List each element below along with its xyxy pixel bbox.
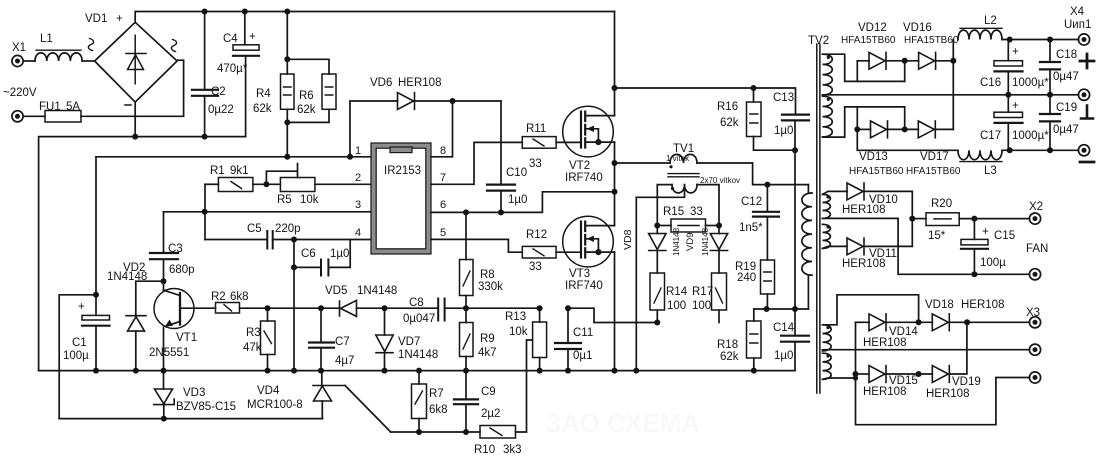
svg-text:+: + <box>982 226 989 238</box>
svg-text:VD6: VD6 <box>370 77 392 89</box>
svg-text:100: 100 <box>667 300 686 312</box>
svg-text:Uип1: Uип1 <box>1064 19 1091 31</box>
svg-text:+: + <box>1012 100 1019 112</box>
svg-text:VD5: VD5 <box>325 285 347 297</box>
svg-text:R17: R17 <box>692 286 713 298</box>
svg-text:C1: C1 <box>72 337 87 349</box>
svg-text:+: + <box>116 13 123 25</box>
junction dot VD6 node <box>450 98 456 104</box>
svg-text:+: + <box>1012 46 1019 58</box>
wire lower rail VD4 to R10 <box>391 431 480 433</box>
wire fan center tap to return rail <box>823 218 1030 274</box>
svg-text:R10: R10 <box>474 444 495 456</box>
junction dot R14 bottom rail <box>654 320 660 326</box>
capacitor C5 <box>205 239 267 241</box>
svg-text:680p: 680p <box>169 264 195 276</box>
svg-text:6: 6 <box>440 199 446 211</box>
plus output symbol <box>1080 54 1094 68</box>
svg-text:X3: X3 <box>1026 307 1040 319</box>
svg-text:VT1: VT1 <box>176 332 197 344</box>
junction dots VD13 VD17 row <box>854 126 860 132</box>
wire riser to VD13 VD17 midpoint <box>904 107 906 129</box>
svg-text:VT3: VT3 <box>569 268 590 280</box>
svg-text:~220V: ~220V <box>3 87 37 99</box>
svg-text:C10: C10 <box>506 167 527 179</box>
svg-text:0µ22: 0µ22 <box>208 104 234 116</box>
connector X3 pin 1 <box>1029 317 1040 328</box>
diode VD5 <box>339 301 341 316</box>
svg-text:33: 33 <box>529 158 542 170</box>
svg-text:R14: R14 <box>666 286 688 298</box>
svg-text:HFA15TB60: HFA15TB60 <box>841 35 896 46</box>
resistor R2 <box>216 303 240 314</box>
wire VD17 cathode riser to plus node <box>952 40 954 130</box>
transistor VT3 <box>563 216 615 267</box>
svg-text:R20: R20 <box>931 198 952 210</box>
junction dots mid rail <box>1005 92 1011 98</box>
svg-text:1N4148: 1N4148 <box>107 271 147 283</box>
svg-text:C12: C12 <box>741 196 762 208</box>
junction dots X3 rectifier <box>916 319 922 325</box>
svg-text:C15: C15 <box>994 230 1015 242</box>
wire secondary A top to VD12 anode net <box>823 54 905 81</box>
junction dots R15 <box>654 223 660 229</box>
resistor R18 <box>753 309 755 321</box>
wire pin7 to R11 <box>431 142 522 184</box>
wire pin 1 row <box>96 156 371 158</box>
svg-text:X4: X4 <box>1070 6 1085 18</box>
svg-text:R3: R3 <box>246 327 261 339</box>
junction dots fan rectifier <box>909 216 915 222</box>
svg-text:2x70 vitkov: 2x70 vitkov <box>700 176 740 185</box>
resistor R6 <box>287 59 329 74</box>
wire R1 left to pin3 node <box>204 184 206 239</box>
diode VD14 <box>856 321 870 323</box>
svg-text:1µ0: 1µ0 <box>774 125 793 137</box>
transformer TV2 fan winding C <box>823 194 831 218</box>
capacitor C14 <box>794 309 796 335</box>
svg-text:HER108: HER108 <box>863 386 906 398</box>
svg-text:R15: R15 <box>663 206 684 218</box>
capacitor C1 <box>82 315 110 320</box>
pin numbers left <box>355 145 446 239</box>
junction dot C13 bottom <box>792 147 798 153</box>
resistor R16 <box>753 88 755 102</box>
svg-text:1N4148: 1N4148 <box>398 349 438 361</box>
junction dots negative rail <box>132 134 138 140</box>
svg-text:100µ: 100µ <box>63 350 89 362</box>
svg-text:1 vitok: 1 vitok <box>666 154 690 163</box>
wire TV1 center tap to ground <box>636 185 684 371</box>
diode VD15 <box>856 373 870 375</box>
junction dots pin1 row <box>284 154 290 160</box>
svg-text:4k7: 4k7 <box>478 347 497 359</box>
svg-text:R9: R9 <box>480 333 495 345</box>
svg-text:FAN: FAN <box>1026 243 1048 255</box>
svg-text:IRF740: IRF740 <box>565 280 603 292</box>
junction dots pin6 row <box>463 209 469 215</box>
svg-text:HER108: HER108 <box>842 258 885 270</box>
connector X4 pin 3 <box>1078 145 1089 156</box>
svg-text:FU1: FU1 <box>39 101 61 113</box>
svg-text:62k: 62k <box>720 351 739 363</box>
diode VD2 <box>136 281 164 316</box>
wire pin5 to R12 <box>431 239 522 252</box>
svg-text:62k: 62k <box>297 104 316 116</box>
diode VD19 <box>932 366 949 383</box>
svg-text:R2: R2 <box>211 291 226 303</box>
wire W2 bottom stub <box>823 378 856 379</box>
svg-text:R12: R12 <box>526 229 547 241</box>
capacitor C18 <box>1049 40 1051 62</box>
diode VD18 <box>932 314 949 331</box>
wire C6 C5 node down to ground <box>293 267 295 370</box>
svg-text:C16: C16 <box>980 77 1001 89</box>
svg-text:2µ2: 2µ2 <box>481 408 500 420</box>
connector X4 pin 2 <box>1078 89 1089 100</box>
transformer TV2 secondary B <box>823 96 833 137</box>
junction dots half bridge column <box>612 85 618 91</box>
junction dot pin4 row <box>291 237 297 243</box>
svg-text:BZV85-C15: BZV85-C15 <box>176 401 236 413</box>
wire R4 R6 bottoms join to pin1 row <box>287 109 329 157</box>
wire VT3 source to ground rail <box>614 252 616 371</box>
capacitor C9 <box>465 371 467 399</box>
diode VD8 <box>656 226 658 234</box>
svg-text:C17: C17 <box>980 130 1001 142</box>
svg-text:X2: X2 <box>1029 201 1043 213</box>
svg-text:1N4148: 1N4148 <box>357 285 397 297</box>
svg-text:1000µ*: 1000µ* <box>1012 77 1049 89</box>
junction dots lower rail <box>416 429 422 435</box>
svg-text:33: 33 <box>690 206 703 218</box>
resistor R14 <box>650 273 665 310</box>
wire winding C top to VD10 <box>823 191 848 194</box>
connector X4 pin 1 <box>1078 34 1089 45</box>
transformer TV2 fan winding D <box>823 224 831 248</box>
wire VT2 drain to top bus <box>614 12 616 116</box>
bridge rectifier VD1 <box>95 22 178 102</box>
capacitor C7 <box>320 308 322 342</box>
junction dot R16 top <box>751 85 757 91</box>
svg-text:C14: C14 <box>773 322 795 334</box>
svg-text:VD17: VD17 <box>920 151 949 163</box>
junction dot VT1 collector node <box>161 278 167 284</box>
diode VD12 <box>857 60 869 62</box>
svg-text:VD4: VD4 <box>257 385 280 397</box>
wire R18 node row <box>754 308 809 310</box>
svg-text:HER108: HER108 <box>961 299 1004 311</box>
capacitor C8 <box>438 299 444 321</box>
zener VD3 <box>163 371 165 389</box>
svg-text:+: + <box>249 31 256 43</box>
svg-text:R4: R4 <box>256 88 271 100</box>
svg-text:C2: C2 <box>211 86 226 98</box>
svg-text:1n5*: 1n5* <box>739 222 763 234</box>
wire TV1 secondary left to R15 <box>657 185 672 226</box>
IC U1 IR2153 body <box>371 143 431 254</box>
svg-text:3k3: 3k3 <box>503 444 522 456</box>
diode VD16 <box>919 52 936 69</box>
svg-text:10k: 10k <box>509 326 528 338</box>
svg-text:220p: 220p <box>275 223 301 235</box>
junction dots VD12 VD16 row <box>902 58 908 64</box>
svg-text:1: 1 <box>355 145 361 157</box>
wire pin 3 row <box>164 211 372 213</box>
svg-text:1µ0: 1µ0 <box>508 194 527 206</box>
svg-text:IRF740: IRF740 <box>565 172 603 184</box>
wire L1 to bridge <box>82 60 95 62</box>
wire negative rail to left vertical <box>39 137 246 371</box>
svg-text:4: 4 <box>355 227 361 239</box>
svg-text:1µ0: 1µ0 <box>330 248 349 260</box>
capacitor C3 <box>150 253 178 259</box>
wire left vcc vertical <box>95 157 97 316</box>
capacitor C16 <box>1007 40 1009 61</box>
diode VD17 <box>918 121 935 138</box>
wire feedback row step <box>568 308 657 322</box>
transformer TV2 primary winding <box>807 185 809 193</box>
svg-text:C19: C19 <box>1056 102 1077 114</box>
svg-text:62k: 62k <box>253 103 272 115</box>
svg-text:C3: C3 <box>168 243 183 255</box>
svg-text:C6: C6 <box>301 248 316 260</box>
transformer TV2 secondary A <box>823 54 833 95</box>
trimmer R13 <box>539 308 541 322</box>
wire center tap mid rail <box>823 94 1079 96</box>
svg-text:IR2153: IR2153 <box>384 165 421 177</box>
svg-text:5A: 5A <box>66 101 80 113</box>
diode VD11 <box>847 238 864 255</box>
svg-text:7: 7 <box>440 172 446 184</box>
junction dots plus rail <box>1007 37 1013 43</box>
junction dot VD3 rail <box>161 416 167 422</box>
junction dot pin3 row <box>202 209 208 215</box>
resistor R15 <box>657 225 671 227</box>
connector X2 pin 1 <box>1029 213 1040 224</box>
svg-text:C7: C7 <box>335 336 350 348</box>
connector X2 pin 2 <box>1029 269 1040 280</box>
svg-text:240: 240 <box>737 272 756 284</box>
svg-text:R8: R8 <box>480 269 495 281</box>
transistor VT2 <box>563 106 615 157</box>
svg-text:TV2: TV2 <box>808 35 829 47</box>
svg-text:R7: R7 <box>429 388 444 400</box>
svg-text:MCR100-8: MCR100-8 <box>247 399 303 411</box>
transformer TV2 winding W1 <box>823 325 832 351</box>
transformer TV2 core <box>817 44 820 393</box>
svg-text:R1: R1 <box>210 165 225 177</box>
resistor R20 <box>912 218 926 220</box>
svg-text:L1: L1 <box>40 33 53 45</box>
svg-text:VD13: VD13 <box>859 151 888 163</box>
svg-text:2: 2 <box>355 172 361 184</box>
svg-text:330k: 330k <box>478 281 503 293</box>
svg-text:HFA15TB60: HFA15TB60 <box>849 166 904 177</box>
svg-text:1000µ*: 1000µ* <box>1012 130 1049 142</box>
minus output symbol <box>1080 161 1094 164</box>
diode VD10 <box>847 183 864 200</box>
transformer TV2 winding W2 <box>823 353 832 379</box>
svg-text:HER108: HER108 <box>926 388 969 400</box>
wire bottom left rail <box>59 418 322 420</box>
connector X1 pin 1 <box>12 55 23 66</box>
wire fuse to bridge right corner <box>81 60 184 116</box>
junction dot R1 R5 <box>263 181 269 187</box>
wire secondary B bottom to VD13 anode net <box>823 107 905 137</box>
svg-text:C9: C9 <box>481 386 496 398</box>
svg-text:R13: R13 <box>505 311 526 323</box>
diode VD9 <box>718 226 720 234</box>
wire anode riser VD14 VD15 frame <box>856 322 1030 424</box>
wire VD13 frame to L3 <box>857 129 958 150</box>
resistor R8 <box>465 212 467 259</box>
svg-text:L3: L3 <box>984 165 997 177</box>
svg-text:C11: C11 <box>573 327 593 339</box>
junction dots R18 row <box>764 306 770 312</box>
potentiometer R5 <box>280 178 315 192</box>
junction dot vcc left node <box>93 292 99 298</box>
svg-text:+: + <box>78 301 85 313</box>
junction dots R4 R6 <box>284 56 290 62</box>
svg-text:3: 3 <box>355 199 361 211</box>
transformer TV1 <box>615 162 671 164</box>
wire riser to VD12 anode <box>856 61 858 82</box>
svg-text:1N4148: 1N4148 <box>701 227 710 256</box>
svg-text:0µ47: 0µ47 <box>1053 71 1079 83</box>
capacitor C17 <box>1007 95 1009 112</box>
capacitor C6 <box>294 240 321 268</box>
svg-text:47k: 47k <box>243 342 262 354</box>
svg-text:1µ0: 1µ0 <box>774 350 793 362</box>
svg-text:L2: L2 <box>984 15 997 27</box>
svg-text:HER108: HER108 <box>398 77 441 89</box>
diode VD13 <box>857 128 870 130</box>
junction dots ground rail <box>93 368 99 374</box>
svg-text:10k: 10k <box>300 194 319 206</box>
svg-text:HFA15TB60: HFA15TB60 <box>904 35 959 46</box>
wire riser to VD12 VD16 midpoint <box>904 61 906 82</box>
resistor R1 <box>205 183 218 185</box>
svg-text:8: 8 <box>440 145 446 157</box>
svg-text:HER108: HER108 <box>842 204 885 216</box>
junction dots top bus <box>202 9 208 15</box>
resistor R12 <box>522 246 556 258</box>
transistor VT1 <box>154 289 194 329</box>
svg-text:C8: C8 <box>409 297 424 309</box>
wire pin8 stub <box>431 101 453 157</box>
diode VD7 <box>384 308 386 335</box>
svg-text:HFA15TB60: HFA15TB60 <box>906 166 961 177</box>
ground rail <box>39 370 795 372</box>
svg-text:62k: 62k <box>720 117 739 129</box>
wire X1 to L1 <box>24 60 36 62</box>
connector X3 pin 2 <box>1029 344 1040 355</box>
svg-text:15*: 15* <box>928 230 946 242</box>
svg-text:VD19: VD19 <box>952 376 981 388</box>
svg-text:VD16: VD16 <box>903 22 932 34</box>
svg-text:0µ1: 0µ1 <box>573 350 592 362</box>
svg-text:6k8: 6k8 <box>429 404 448 416</box>
capacitor C4 <box>244 12 246 45</box>
junction dot C6 row <box>291 264 297 270</box>
capacitor C12 <box>766 185 768 212</box>
svg-text:C13: C13 <box>773 92 794 104</box>
junction dot C12 top <box>764 182 770 188</box>
capacitor C15 <box>973 219 975 240</box>
svg-text:VD12: VD12 <box>858 22 887 34</box>
svg-text:0µ47: 0µ47 <box>1053 124 1079 136</box>
resistor R10 <box>480 426 516 439</box>
svg-text:2N5551: 2N5551 <box>149 347 189 359</box>
common output symbol <box>1081 106 1093 119</box>
svg-text:VD1: VD1 <box>85 13 107 25</box>
connector X1 pin 2 <box>12 111 23 122</box>
wire bridge minus to negative rail <box>134 102 136 137</box>
svg-text:470µ*: 470µ* <box>217 63 248 75</box>
svg-text:6k8: 6k8 <box>230 291 249 303</box>
resistor R9 <box>465 308 467 322</box>
svg-text:R18: R18 <box>717 339 738 351</box>
capacitor C19 <box>1049 95 1051 114</box>
svg-text:R11: R11 <box>526 123 546 135</box>
wire W1 top frame to VD14 VD18 midpoint <box>823 295 919 325</box>
svg-text:ЗАО СХЕМА: ЗАО СХЕМА <box>545 408 700 438</box>
capacitor C2 <box>204 12 206 90</box>
svg-text:5: 5 <box>440 227 446 239</box>
svg-text:C18: C18 <box>1056 49 1077 61</box>
svg-text:33: 33 <box>529 261 542 273</box>
junction dots minus rail <box>1007 147 1013 153</box>
svg-text:1N4148: 1N4148 <box>672 227 681 256</box>
svg-text:HER108: HER108 <box>863 337 906 349</box>
svg-text:C4: C4 <box>223 33 238 45</box>
wire winding D bottom to VD11 <box>823 246 848 248</box>
resistor R3 <box>267 308 269 321</box>
resistor R19 <box>761 260 775 294</box>
wire VT2 source down to VT3 drain <box>614 142 616 226</box>
resistor R4 <box>286 12 288 75</box>
svg-text:VT2: VT2 <box>569 160 590 172</box>
svg-text:VD7: VD7 <box>398 336 420 348</box>
thyristor VD4 <box>321 371 323 386</box>
svg-text:VD9: VD9 <box>685 233 696 251</box>
wire bridge plus to top bus <box>135 12 614 23</box>
inductor L2 <box>958 30 1002 39</box>
svg-text:100: 100 <box>692 300 711 312</box>
fuse FU1 <box>24 115 46 117</box>
svg-text:9k1: 9k1 <box>230 165 249 177</box>
connector X3 pin 3 <box>1029 372 1040 383</box>
svg-text:R5: R5 <box>277 194 292 206</box>
capacitor C11 <box>567 308 569 342</box>
wire C1 top node to VD3 rail branch <box>59 295 96 419</box>
wire TV1 secondary right to R15 <box>697 185 719 226</box>
capacitor C10 <box>500 101 502 184</box>
wire half bridge mid rail right <box>615 88 796 114</box>
inductor L3 <box>958 150 1002 159</box>
resistor R7 <box>418 371 420 384</box>
svg-text:C5: C5 <box>247 223 262 235</box>
capacitor C13 <box>782 115 809 121</box>
wire pin6 row <box>431 192 615 213</box>
svg-text:R6: R6 <box>299 90 314 102</box>
resistor R11 <box>522 137 556 149</box>
svg-text:0µ047: 0µ047 <box>403 313 435 325</box>
svg-text:VD3: VD3 <box>183 387 205 399</box>
svg-text:VD8: VD8 <box>622 229 634 250</box>
wire W1 W2 center to X3 mid <box>823 349 1030 351</box>
